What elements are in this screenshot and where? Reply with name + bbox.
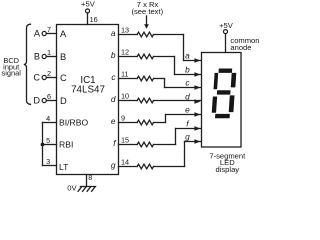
wire IC pin 13 to resistor (119, 34, 138, 36)
input terminal A (pin 7) (34, 29, 46, 39)
wire IC pin 10 to resistor (119, 100, 138, 102)
svg-text:A: A (60, 29, 67, 39)
wire c into display (165, 87, 201, 89)
resistor Rx (segment d) (137, 98, 153, 103)
ground symbol (78, 187, 96, 192)
wire input C to IC (46, 77, 56, 79)
wire control pin 5 (43, 144, 57, 146)
display seg top-left (214, 73, 219, 89)
wire IC pin 12 to resistor (119, 56, 138, 58)
display seg top-right (231, 73, 237, 88)
display seg bottom (215, 114, 230, 118)
svg-text:a: a (111, 28, 116, 38)
resistor Rx (segment a) (137, 32, 153, 37)
7-segment display body (202, 53, 242, 148)
arrowhead into display segment g (194, 139, 200, 144)
svg-text:C: C (33, 73, 40, 83)
svg-text:D: D (33, 96, 40, 106)
svg-text:b: b (185, 65, 190, 75)
pointer arrow to resistors (144, 16, 149, 29)
arrowhead into display segment c (194, 85, 200, 90)
arrowhead into display segment b (194, 72, 200, 77)
wire e into display (166, 114, 201, 116)
svg-text:b: b (111, 50, 116, 60)
arrowhead into display segment f (194, 126, 200, 131)
svg-text:e: e (111, 116, 116, 126)
wire riser e (165, 115, 167, 123)
wire resistor b horizontal (154, 56, 175, 58)
svg-text:LT: LT (59, 162, 69, 172)
resistor Rx (segment c) (137, 76, 153, 81)
junction dot on RBI wire (41, 143, 45, 147)
wire riser c (164, 79, 166, 88)
resistor Rx (segment b) (137, 54, 153, 59)
wire riser g (184, 142, 186, 167)
wire IC pin 8 to ground (86, 175, 88, 187)
svg-text:6: 6 (47, 92, 51, 101)
display seg bottom-left (212, 97, 217, 113)
resistor Rx (segment f) (137, 142, 153, 147)
svg-text:RBI: RBI (59, 140, 73, 150)
svg-text:g: g (185, 132, 190, 142)
svg-text:f: f (186, 119, 190, 129)
wire resistor c horizontal (154, 78, 165, 80)
BCD input signal label (2, 56, 22, 77)
input terminal B (pin 1) (34, 52, 46, 62)
svg-text:B: B (60, 52, 66, 62)
display seg bottom-right (229, 95, 235, 112)
wire riser b (174, 57, 176, 75)
svg-text:anode: anode (230, 43, 251, 52)
svg-text:B: B (34, 52, 40, 62)
wire riser f (175, 129, 177, 145)
wire control bus vertical (42, 123, 44, 166)
svg-text:g: g (111, 160, 116, 170)
input terminal C (pin 2) (33, 73, 46, 83)
7-segment digit 8 (211, 69, 236, 119)
svg-text:(see text): (see text) (131, 7, 163, 16)
wire resistor f horizontal (154, 144, 176, 146)
+5V supply terminal (display anode) (219, 21, 234, 33)
svg-text:d: d (185, 92, 190, 102)
svg-text:a: a (185, 51, 190, 61)
+5V supply terminal (IC pin 16) (81, 0, 96, 13)
svg-text:signal: signal (2, 68, 22, 77)
wire resistor to display segment d (154, 100, 201, 102)
svg-text:15: 15 (121, 136, 129, 145)
wire b into display (175, 74, 201, 76)
svg-text:5: 5 (46, 136, 50, 145)
brace for BCD inputs (24, 24, 31, 104)
svg-text:e: e (185, 105, 190, 115)
svg-text:+5V: +5V (81, 0, 96, 9)
wire +5V to pin 16 (87, 13, 89, 25)
svg-text:7: 7 (47, 25, 51, 34)
display seg middle (217, 90, 231, 94)
wire input B to IC (46, 56, 56, 58)
wire resistor e horizontal (154, 122, 166, 124)
svg-text:+5V: +5V (219, 21, 234, 30)
svg-text:d: d (111, 94, 116, 104)
wire f into display (176, 128, 201, 130)
7-segment LED display label (209, 151, 246, 174)
svg-text:74LS47: 74LS47 (71, 85, 105, 96)
svg-text:3: 3 (46, 157, 50, 166)
arrowhead into display segment a (194, 58, 200, 63)
svg-text:2: 2 (47, 69, 51, 78)
wire riser a (183, 35, 185, 61)
resistor Rx (segment e) (137, 120, 153, 125)
svg-text:13: 13 (121, 26, 129, 35)
svg-text:0V: 0V (67, 183, 77, 192)
svg-text:A: A (34, 29, 41, 39)
common anode label (230, 36, 259, 52)
wire IC pin 15 to resistor (119, 144, 138, 146)
wire control pin 4 (43, 122, 57, 124)
wire resistor a horizontal (154, 34, 184, 36)
arrowhead into display segment e (194, 112, 200, 117)
svg-text:D: D (60, 96, 67, 106)
input terminal D (pin 6) (33, 96, 46, 106)
svg-text:8: 8 (88, 173, 92, 182)
wire resistor g horizontal (154, 166, 185, 168)
wire a into display (184, 60, 201, 62)
svg-text:display: display (215, 165, 239, 174)
svg-text:4: 4 (46, 114, 50, 123)
svg-text:16: 16 (90, 15, 98, 24)
wire IC pin 14 to resistor (119, 166, 138, 168)
svg-text:9: 9 (121, 114, 125, 123)
wire input A to IC (46, 33, 56, 35)
wire IC pin 11 to resistor (119, 78, 138, 80)
wire input D to IC (46, 100, 56, 102)
svg-text:14: 14 (121, 158, 129, 167)
svg-text:c: c (185, 78, 190, 88)
arrowhead into display segment d (194, 99, 200, 104)
svg-text:1: 1 (47, 48, 51, 57)
wire g into display (185, 141, 201, 143)
IC U1 74LS47 body (57, 25, 119, 175)
svg-text:11: 11 (121, 70, 129, 79)
wire IC pin 9 to resistor (119, 122, 138, 124)
svg-text:10: 10 (121, 92, 129, 101)
svg-text:12: 12 (121, 48, 129, 57)
wire +5V to display (225, 34, 227, 53)
resistor Rx (segment g) (137, 164, 153, 169)
svg-text:C: C (60, 73, 67, 83)
wire control pin 3 (43, 165, 57, 167)
svg-text:BI/RBO: BI/RBO (59, 118, 88, 128)
display seg top (219, 69, 233, 73)
